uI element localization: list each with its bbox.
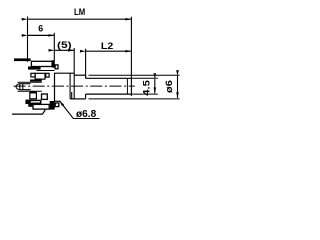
- svg-text:ø6: ø6: [164, 80, 174, 93]
- svg-text:L2: L2: [101, 41, 113, 51]
- centerline: [14, 85, 135, 87]
- top terminal box: [31, 61, 52, 66]
- motor can top edge: [55, 72, 75, 74]
- extension line left x27.5: [27, 17, 29, 62]
- bottom notch: [28, 104, 32, 107]
- boss step bottom: [85, 94, 87, 99]
- bottom black bar: [30, 92, 36, 94]
- motor can bottom edge: [55, 100, 61, 102]
- top mid bar: [28, 67, 41, 70]
- bottom terminal block: [50, 101, 55, 110]
- Ø4.5 extension bottom: [131, 93, 157, 95]
- svg-text:ø6.8: ø6.8: [76, 109, 97, 120]
- svg-text:6: 6: [38, 24, 43, 34]
- bottom brush housing: [30, 93, 37, 99]
- dimension (5) line: [54, 49, 74, 51]
- top small box: [46, 73, 49, 77]
- cap step line bottom: [18, 90, 42, 92]
- top brush housing A: [31, 73, 35, 77]
- dimension L2 line: [86, 50, 132, 52]
- bottom tab: [42, 94, 48, 99]
- top tab: [55, 65, 58, 69]
- top lead bar: [14, 58, 31, 61]
- motor can right step edge: [69, 73, 71, 99]
- dimension LM line: [28, 18, 132, 20]
- svg-text:LM: LM: [74, 6, 85, 17]
- Ø6 extension bottom: [89, 98, 180, 100]
- extension line right x131.4: [130, 17, 132, 96]
- leader line Ø6.8: [60, 101, 100, 118]
- top black bar: [30, 80, 42, 82]
- shaft top line: [86, 77, 132, 79]
- boss bottom line: [70, 98, 86, 100]
- hub: [16, 84, 31, 90]
- bottom wide bar: [26, 100, 41, 103]
- bottom wide bar left fill: [26, 100, 31, 104]
- svg-text:4.5: 4.5: [141, 80, 151, 96]
- boss (Ø6 section) top line: [74, 74, 85, 76]
- dimension 6 line: [28, 34, 55, 36]
- cap top line: [37, 70, 55, 72]
- motor can left edge: [54, 73, 56, 102]
- Ø4.5 extension top: [131, 77, 157, 79]
- can face bottom corner vertical: [71, 92, 73, 99]
- boss step top: [85, 75, 87, 78]
- top terminal block: [52, 60, 55, 67]
- extension line x74.2: [73, 48, 75, 99]
- extension line x54.3: [53, 33, 55, 61]
- cap step line top: [18, 81, 42, 83]
- shaft bottom line: [86, 93, 132, 95]
- shaft chamfer: [126, 78, 128, 94]
- extension line x85.6: [85, 49, 87, 79]
- bottom lead wire: [12, 110, 45, 114]
- top brush housing B: [35, 73, 45, 79]
- bottom face tab: [55, 103, 59, 107]
- Ø6 dimension line: [177, 76, 179, 98]
- svg-text:(5): (5): [57, 40, 72, 50]
- bottom terminal box: [33, 104, 49, 109]
- leader arrowhead: [60, 101, 64, 106]
- Ø4.5 dimension line: [154, 79, 156, 93]
- Ø6 extension top: [89, 74, 180, 76]
